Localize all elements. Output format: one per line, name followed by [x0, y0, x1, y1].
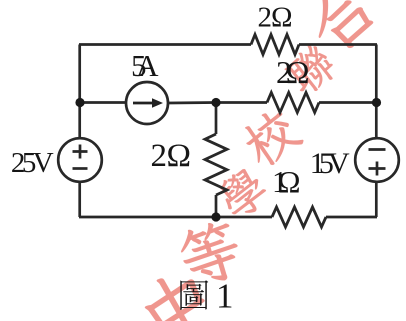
wire bottom rail left segment [79, 216, 272, 219]
node B junction dot [211, 98, 220, 107]
wire node B to resistor R2 [216, 101, 267, 104]
node A junction dot [75, 98, 84, 107]
wire top rail left segment [79, 43, 251, 46]
node C junction dot [372, 98, 381, 107]
voltage source V1 25V circle [58, 138, 102, 182]
svg-text:25V: 25V [11, 147, 54, 179]
svg-text:2Ω: 2Ω [276, 54, 310, 90]
watermark char lian [281, 41, 340, 99]
resistor R3 2ohm vertical [205, 134, 227, 195]
wire right vertical bottom [375, 182, 378, 217]
svg-text:2Ω: 2Ω [258, 2, 293, 34]
wire current source to node B [168, 101, 216, 104]
wire top rail right segment [299, 43, 377, 46]
watermark char he [296, 0, 390, 60]
current source I1 5A circle [126, 82, 168, 124]
wire left vertical bottom [78, 182, 81, 217]
wire node B down to resistor R3 [215, 103, 218, 135]
resistor R1 2ohm top [251, 35, 299, 55]
wire resistor R3 to node D [215, 195, 218, 217]
caption glyph tu (figure) [180, 280, 208, 310]
resistor R2 2ohm middle [267, 93, 319, 113]
watermark char xue [213, 164, 272, 224]
watermark text (diagonal pink) [136, 0, 390, 321]
V1 minus sign [73, 167, 88, 170]
svg-text:5A: 5A [131, 48, 159, 83]
V2 plus sign [369, 162, 386, 176]
V2 minus sign [369, 148, 386, 151]
watermark char xiao [237, 104, 305, 172]
wire bottom rail right segment [326, 216, 377, 219]
svg-text:1Ω: 1Ω [272, 164, 301, 199]
wire resistor R2 to node C [319, 101, 377, 104]
watermark char zhong [136, 264, 220, 321]
node D junction dot [211, 212, 220, 221]
voltage source V2 15V circle [355, 138, 399, 182]
svg-text:15V: 15V [310, 147, 350, 180]
I1 arrow [133, 98, 163, 108]
wire left vertical top [78, 45, 81, 139]
wire middle rail from node A to current source [80, 101, 126, 104]
V1 plus sign [73, 145, 88, 159]
wire right vertical top [375, 45, 378, 139]
watermark char deng [175, 217, 246, 290]
resistor R4 1ohm bottom [272, 207, 326, 227]
svg-text:1: 1 [216, 277, 234, 316]
svg-text:2Ω: 2Ω [151, 138, 192, 174]
